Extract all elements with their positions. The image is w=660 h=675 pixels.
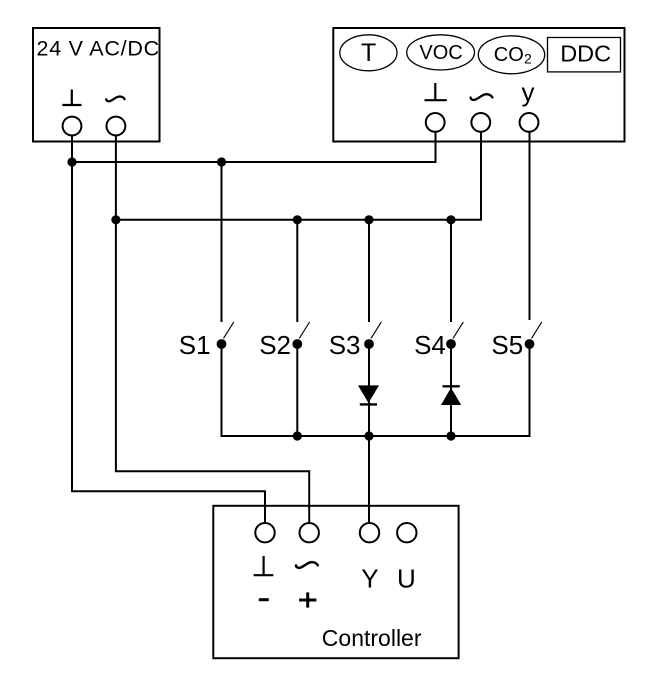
- controller terminal 1 circle: [255, 523, 274, 542]
- diode D1 (cathode down) on S3 column: [358, 385, 379, 404]
- junction row2 at S2: [293, 215, 302, 224]
- wire: ground bus row 1 to sensor ground terminal: [72, 132, 436, 162]
- svg-text:S5: S5: [491, 330, 523, 360]
- switch S4: [414, 322, 463, 360]
- junction row2 at S4: [446, 215, 455, 224]
- junction row1 at S1: [217, 157, 226, 166]
- oval VOC: [407, 35, 475, 70]
- terminal circle sensor y: [520, 113, 539, 132]
- minus label: [259, 598, 269, 601]
- DDC box: [548, 38, 621, 72]
- sensor box (T / VOC / CO2 / DDC): [333, 28, 624, 142]
- controller terminal 2 circle: [300, 523, 319, 542]
- svg-text:24 V AC/DC: 24 V AC/DC: [37, 37, 160, 61]
- oval CO2: [478, 36, 544, 74]
- AC tilde symbol (sensor box): [471, 94, 493, 100]
- controller terminal U circle: [397, 523, 416, 542]
- diode D2 (cathode up) on S4 column: [441, 386, 461, 405]
- svg-text:DDC: DDC: [560, 41, 611, 67]
- wire: left ground terminal down, right to controller terminal 1: [72, 136, 265, 523]
- junction row3 at S3: [364, 431, 373, 440]
- wire: S5 column upper from sensor y terminal: [529, 132, 531, 320]
- terminal circle sensor ground: [426, 113, 445, 132]
- wire: S4 column lower: [450, 344, 452, 437]
- ground symbol (controller): [254, 556, 274, 575]
- controller terminal Y circle: [360, 523, 379, 542]
- svg-text:y: y: [522, 77, 535, 107]
- power supply box 24 V AC/DC: [33, 28, 160, 142]
- wire: S4 column upper: [450, 220, 452, 322]
- AC tilde symbol (controller): [296, 562, 318, 568]
- svg-text:2: 2: [524, 51, 532, 67]
- ground symbol (left box): [62, 90, 81, 106]
- wire: S1 column lower: [221, 344, 223, 437]
- junction row2 at S3: [364, 215, 373, 224]
- plus label: [299, 592, 316, 607]
- terminal circle left-box ground: [63, 117, 82, 136]
- wire: bottom bus row 3: [221, 435, 531, 437]
- wire: S3 column lower through diode to controller Y: [368, 344, 370, 523]
- svg-text:VOC: VOC: [419, 42, 462, 64]
- svg-text:Y: Y: [361, 563, 378, 593]
- junction row3 at S2: [293, 431, 302, 440]
- switch S2: [259, 322, 309, 360]
- svg-text:S4: S4: [414, 330, 446, 360]
- svg-text:S1: S1: [179, 330, 211, 360]
- svg-text:S3: S3: [329, 330, 361, 360]
- controller box: [213, 506, 458, 658]
- ground symbol (sensor box): [425, 83, 447, 100]
- AC tilde symbol (left box): [106, 96, 124, 101]
- terminal circle left-box phase: [107, 117, 126, 136]
- terminal circle sensor phase: [471, 113, 490, 132]
- svg-text:CO: CO: [494, 44, 524, 66]
- svg-text:Controller: Controller: [322, 625, 422, 651]
- switch S3: [329, 322, 382, 360]
- wire: phase bus row 2 to sensor phase terminal: [116, 132, 481, 220]
- wire: S2 column upper: [296, 220, 298, 322]
- junction on left phase wire at row2: [111, 215, 120, 224]
- svg-text:T: T: [361, 39, 376, 67]
- wire: S3 column upper: [368, 220, 370, 322]
- switch S1: [179, 322, 234, 360]
- svg-text:S2: S2: [259, 330, 291, 360]
- wire: S2 column lower: [296, 344, 298, 437]
- oval T: [340, 35, 397, 71]
- svg-text:U: U: [397, 563, 416, 593]
- switch S5: [491, 322, 541, 360]
- junction row3 at S4: [446, 431, 455, 440]
- wire: left phase terminal down, right to controller terminal 2: [116, 136, 309, 523]
- wire: S5 column lower: [529, 344, 531, 437]
- wire: S1 column upper: [221, 162, 223, 322]
- junction on left ground wire at row1: [67, 157, 76, 166]
